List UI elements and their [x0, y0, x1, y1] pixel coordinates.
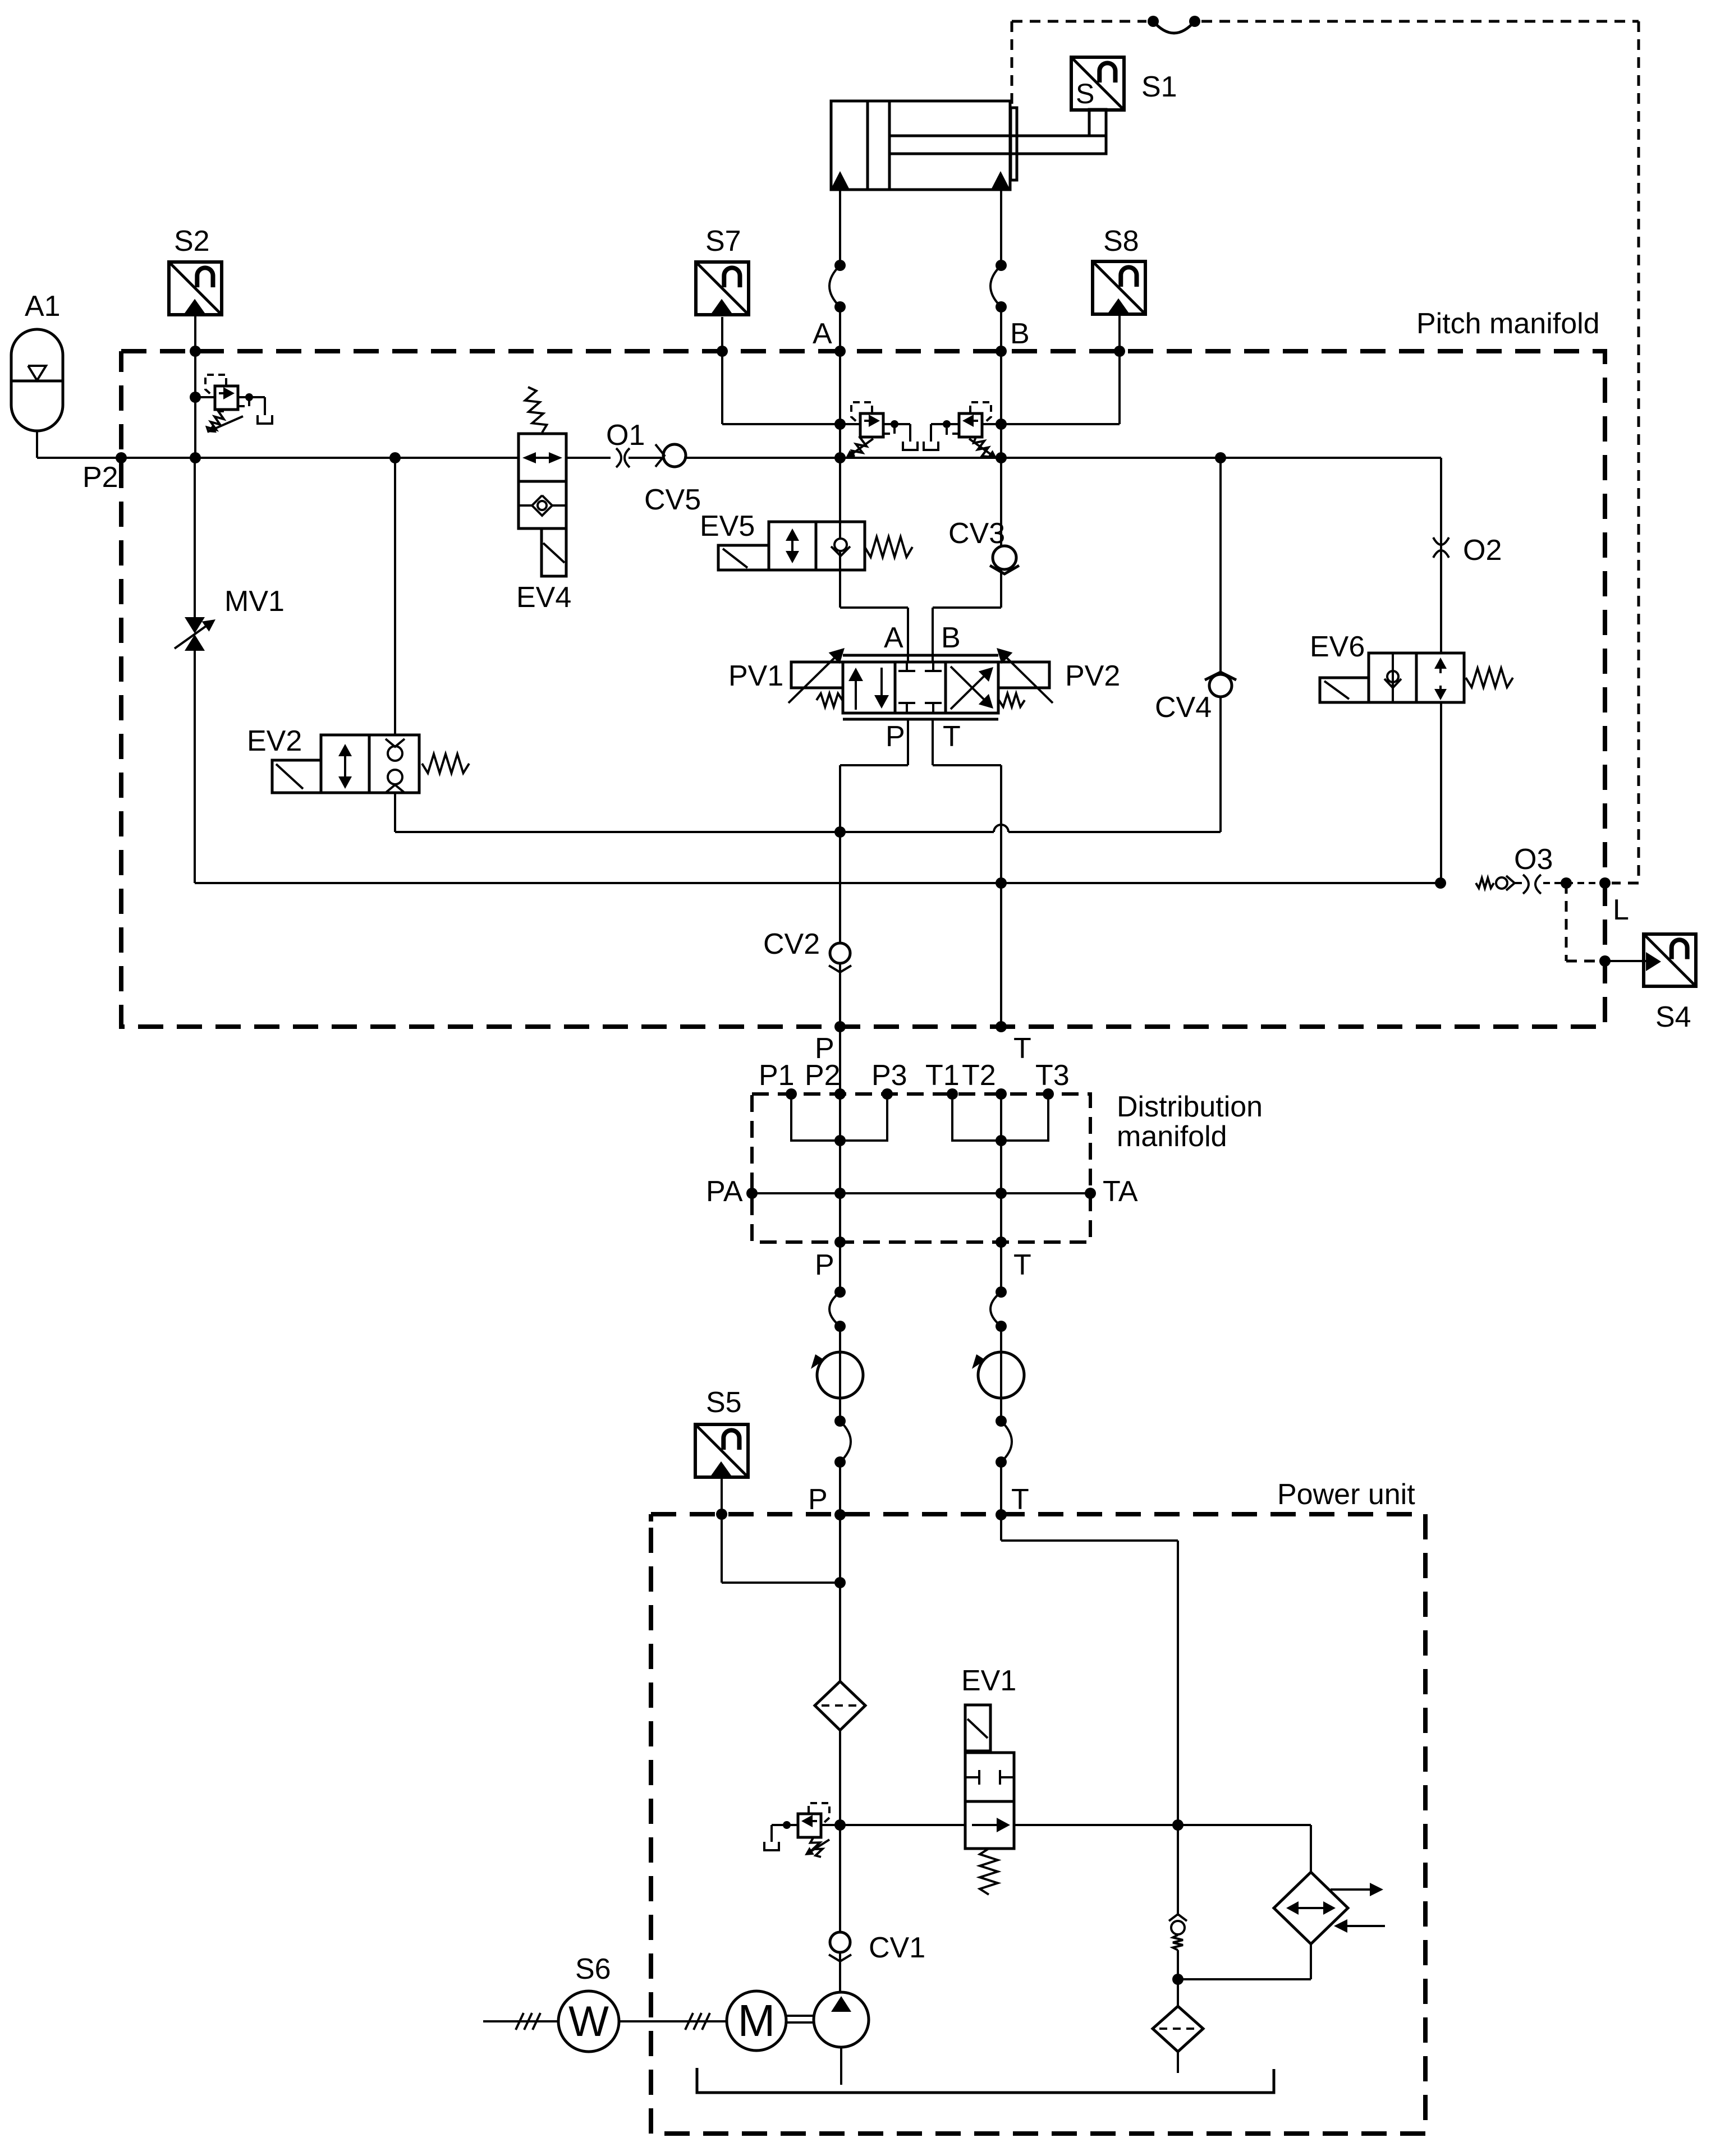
svg-text:O1: O1	[606, 419, 645, 452]
svg-text:CV1: CV1	[869, 1932, 925, 1964]
svg-text:P3: P3	[871, 1059, 907, 1092]
svg-text:manifold: manifold	[1117, 1120, 1227, 1153]
svg-text:B: B	[941, 622, 961, 654]
svg-text:P: P	[808, 1483, 828, 1516]
svg-text:T1: T1	[925, 1059, 960, 1092]
svg-text:S7: S7	[705, 225, 741, 258]
svg-text:P: P	[886, 720, 905, 753]
svg-text:Power unit: Power unit	[1277, 1478, 1415, 1511]
svg-text:PV2: PV2	[1065, 660, 1120, 692]
svg-text:S5: S5	[706, 1386, 742, 1419]
svg-text:EV2: EV2	[247, 725, 302, 757]
svg-text:B: B	[1010, 318, 1030, 350]
svg-text:T: T	[943, 720, 961, 753]
svg-text:T: T	[1011, 1483, 1029, 1516]
svg-text:W: W	[568, 1998, 609, 2045]
svg-text:PV1: PV1	[728, 660, 783, 692]
svg-text:T3: T3	[1035, 1059, 1070, 1092]
svg-text:A: A	[813, 318, 832, 350]
svg-text:T: T	[1013, 1249, 1031, 1281]
svg-text:S6: S6	[575, 1953, 611, 1985]
svg-text:Pitch manifold: Pitch manifold	[1416, 307, 1600, 340]
svg-text:P1: P1	[759, 1059, 795, 1092]
svg-text:EV5: EV5	[700, 510, 755, 543]
svg-text:S8: S8	[1103, 225, 1139, 258]
svg-text:A1: A1	[25, 290, 61, 323]
svg-text:EV6: EV6	[1310, 631, 1365, 663]
svg-text:T: T	[1013, 1032, 1031, 1065]
svg-text:L: L	[1613, 894, 1629, 926]
svg-text:S4: S4	[1655, 1001, 1691, 1033]
svg-text:T2: T2	[962, 1059, 996, 1092]
svg-text:P2: P2	[805, 1059, 841, 1092]
svg-text:A: A	[884, 622, 903, 654]
svg-text:M: M	[738, 1996, 776, 2045]
svg-text:EV1: EV1	[961, 1665, 1016, 1697]
svg-text:CV5: CV5	[644, 484, 701, 516]
svg-text:S: S	[1076, 78, 1094, 109]
svg-text:Distribution: Distribution	[1117, 1091, 1263, 1123]
svg-text:O3: O3	[1514, 843, 1553, 876]
svg-text:P2: P2	[82, 461, 118, 494]
svg-text:PA: PA	[706, 1175, 743, 1208]
svg-text:EV4: EV4	[516, 581, 571, 614]
svg-text:TA: TA	[1103, 1175, 1138, 1208]
svg-text:S1: S1	[1141, 71, 1177, 103]
svg-text:P: P	[815, 1249, 834, 1281]
svg-text:MV1: MV1	[224, 585, 285, 618]
svg-text:O2: O2	[1463, 534, 1502, 567]
svg-text:CV2: CV2	[763, 928, 820, 960]
svg-text:S2: S2	[174, 225, 210, 258]
svg-text:CV4: CV4	[1155, 691, 1212, 724]
svg-text:CV3: CV3	[948, 517, 1005, 550]
